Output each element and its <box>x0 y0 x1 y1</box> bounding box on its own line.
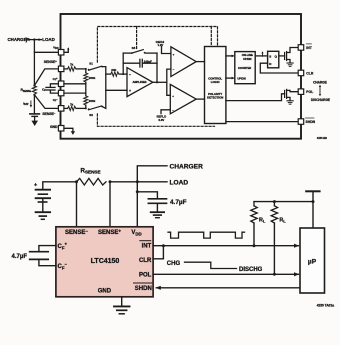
resistor RSENSE (block diagram) <box>21 86 37 95</box>
svg-text:LTC4150: LTC4150 <box>91 258 120 265</box>
power rail Vcc T-bar <box>254 191 320 227</box>
svg-text:S: S <box>269 54 271 58</box>
ground arrow (battery return) <box>31 121 38 126</box>
svg-text:–: – <box>173 68 175 72</box>
wire branch to VDD pin <box>34 51 58 53</box>
svg-text:LOGIC: LOGIC <box>211 80 220 84</box>
svg-text:AMPLIFIER: AMPLIFIER <box>133 80 147 84</box>
svg-text:4150 TA01a: 4150 TA01a <box>317 303 335 307</box>
wire CLR loop to flip-flop R <box>260 63 298 73</box>
svg-text:S2: S2 <box>89 113 93 117</box>
svg-text:VDD: VDD <box>53 46 59 51</box>
flip-flop U2 <box>268 51 279 68</box>
pin SENSE+ <box>44 60 64 71</box>
switch S1 <box>88 61 103 70</box>
transistor Q1 (INT open-drain) <box>279 48 298 63</box>
wire middle segment <box>85 82 87 96</box>
svg-text:7k: 7k <box>70 62 74 66</box>
svg-text:LOAD: LOAD <box>170 180 189 187</box>
dashed chopper-control boundary <box>97 27 217 127</box>
svg-text:20k: 20k <box>111 68 116 72</box>
label IBAT with arrow <box>23 101 32 108</box>
wire to CF- pin <box>64 92 86 94</box>
svg-text:S3: S3 <box>132 46 136 50</box>
wire from junction down to RSENSE <box>33 40 35 86</box>
svg-text:SHDN: SHDN <box>135 286 152 292</box>
svg-text:CLR: CLR <box>306 72 314 76</box>
svg-text:COUNTER: COUNTER <box>238 66 251 70</box>
svg-text:CHARGER: CHARGER <box>170 164 204 171</box>
wire summing vertical <box>102 67 106 109</box>
wire charger-load with arrow <box>29 38 42 41</box>
ground at 4.7uF <box>151 212 164 218</box>
comparator lower <box>170 84 196 113</box>
wire CLR loop <box>153 246 163 259</box>
wire RSENSE top to SENSE+ pin <box>34 69 58 86</box>
pin CLR <box>298 70 314 76</box>
svg-text:+: + <box>172 94 174 98</box>
wire feedback right riser <box>156 53 158 82</box>
svg-text:4150 BD: 4150 BD <box>317 136 327 140</box>
node at bottom 7k output <box>85 107 87 109</box>
svg-text:+: + <box>129 89 131 93</box>
pin INT <box>298 44 312 50</box>
svg-text:GND: GND <box>98 289 112 295</box>
wire SENSE- drop <box>76 182 78 227</box>
wire SHDN to control logic <box>226 121 298 123</box>
svg-text:+: + <box>173 53 175 57</box>
reference REFLO <box>157 110 171 122</box>
svg-text:SHDN: SHDN <box>306 120 316 124</box>
svg-text:Q: Q <box>275 54 278 58</box>
wire POL line to uP <box>153 272 299 276</box>
junction dots at RSENSE <box>33 85 35 87</box>
wire amp + input <box>106 89 127 91</box>
internal ground arrow at GND pin <box>64 128 75 135</box>
wire INT line to uP <box>153 244 299 248</box>
svg-text:200k: 200k <box>89 99 96 103</box>
svg-text:POL: POL <box>306 90 313 94</box>
wire POL gate from control logic <box>226 94 285 101</box>
resistor 7k (top input) <box>64 62 86 71</box>
svg-text:7k: 7k <box>70 102 74 106</box>
wire charger branch <box>137 166 167 182</box>
capacitor 4.7uF (CF filter) <box>12 246 56 266</box>
svg-text:SENSE+: SENSE+ <box>44 60 58 64</box>
wire SENSE+ drop <box>109 182 111 227</box>
capacitor CF external <box>42 84 58 93</box>
svg-text:CF–: CF– <box>53 98 59 103</box>
pin SHDN <box>298 118 315 124</box>
svg-text:RSENSE: RSENSE <box>21 88 32 93</box>
feedback riser wire <box>122 53 124 74</box>
svg-text:4.7µF: 4.7µF <box>12 254 28 260</box>
svg-text:+: + <box>34 183 37 189</box>
svg-text:SENSE–: SENSE– <box>42 112 56 116</box>
switch S2 <box>88 106 103 118</box>
ground at battery <box>36 212 51 219</box>
capacitor 100pF <box>123 59 157 67</box>
svg-text:0.8V: 0.8V <box>159 118 165 122</box>
label CHG with waveform <box>167 261 263 273</box>
svg-text:CF+: CF+ <box>53 77 59 82</box>
node amp output <box>156 81 158 83</box>
svg-text:VDD: VDD <box>131 230 141 236</box>
wire control to counter (clock) <box>226 55 235 58</box>
svg-text:UP/DN: UP/DN <box>237 76 245 80</box>
resistor RL (INT pull-up) <box>251 202 266 246</box>
internal VDD hook wire <box>64 47 69 52</box>
svg-text:1.2V: 1.2V <box>158 43 164 47</box>
reference REFHI <box>156 40 171 54</box>
svg-text:µP: µP <box>308 259 317 266</box>
svg-text:SENSE+: SENSE+ <box>98 229 121 237</box>
resistor 200k (lower) <box>84 96 96 109</box>
ground at GND pin <box>114 297 130 314</box>
svg-text:S1: S1 <box>89 61 93 65</box>
ground at Q1 <box>287 63 293 66</box>
svg-text:200k: 200k <box>89 76 96 80</box>
node CHARGER/LOAD label <box>8 37 55 43</box>
resistor 7k (bottom input) <box>64 102 86 110</box>
counter block <box>235 52 255 84</box>
op-amp AMPLIFIER <box>127 68 153 97</box>
svg-text:4.7µF: 4.7µF <box>170 199 187 206</box>
wire RSENSE bottom to SENSE- pin <box>34 95 58 109</box>
IC outline box (top block diagram) <box>61 14 302 139</box>
svg-text:SENSE–: SENSE– <box>65 229 88 237</box>
resistor 20k <box>106 68 127 76</box>
svg-text:CF: CF <box>42 87 46 92</box>
svg-text:INT: INT <box>306 46 312 50</box>
wire control to counter (up/dn) <box>226 77 235 80</box>
wire SHDN line from uP <box>156 286 301 290</box>
pin CF+ <box>53 77 64 87</box>
wire load rail <box>110 180 167 183</box>
svg-text:IBAT: IBAT <box>23 102 29 107</box>
resistor RL (POL pull-up) <box>271 202 286 275</box>
svg-text:DISCHARGE: DISCHARGE <box>311 98 330 102</box>
pin CF- <box>53 90 64 102</box>
svg-text:CHARGE: CHARGE <box>313 80 327 84</box>
microprocessor uP box <box>300 228 325 293</box>
wire comparator outputs <box>196 61 204 63</box>
pin POL <box>298 89 313 95</box>
comparator upper <box>171 47 196 77</box>
svg-text:CLR: CLR <box>139 258 152 264</box>
wire VDD drop <box>136 182 158 227</box>
transistor Q2 (POL open-drain) <box>285 89 298 100</box>
svg-text:–: – <box>129 72 131 76</box>
node feedback tap <box>122 73 124 75</box>
resistor 200k (upper) <box>84 69 96 82</box>
svg-text:R: R <box>269 62 272 66</box>
svg-text:DISCHG: DISCHG <box>239 267 263 273</box>
svg-text:POL: POL <box>139 273 152 279</box>
wire amp output <box>153 81 167 83</box>
pin VDD <box>53 46 64 55</box>
IC LTC4150 (application) <box>56 227 153 297</box>
switch S3 <box>123 46 157 54</box>
resistor RSENSE (application) <box>75 168 112 185</box>
svg-text:UP/DN: UP/DN <box>243 57 251 61</box>
svg-text:RL: RL <box>279 218 286 224</box>
svg-text:RSENSE: RSENSE <box>80 168 100 175</box>
svg-text:CHG: CHG <box>167 261 181 267</box>
svg-text:INT: INT <box>142 244 152 250</box>
wire comparator input riser <box>167 69 171 95</box>
ground at Q2 <box>287 101 293 104</box>
wire 200k junction to CF+ pin <box>64 83 86 85</box>
battery symbol below RSENSE <box>30 95 40 121</box>
control logic block <box>205 47 226 124</box>
svg-text:DETECTION: DETECTION <box>207 96 223 100</box>
charge/discharge annotation <box>311 80 330 102</box>
svg-text:100pF: 100pF <box>144 60 152 64</box>
pin GND <box>50 125 64 131</box>
battery B1 <box>34 182 77 212</box>
pin SENSE- <box>42 106 64 117</box>
capacitor 4.7uF (VDD bypass) <box>148 199 186 212</box>
node at top 7k output <box>85 68 87 70</box>
svg-text:RL: RL <box>259 218 266 224</box>
svg-text:LOAD: LOAD <box>42 37 54 42</box>
waveform INT pulses <box>168 232 245 238</box>
wire counter to flip-flop with edge marker <box>255 51 267 56</box>
svg-text:GND: GND <box>50 125 58 129</box>
svg-text:ON-LINE: ON-LINE <box>242 53 253 57</box>
